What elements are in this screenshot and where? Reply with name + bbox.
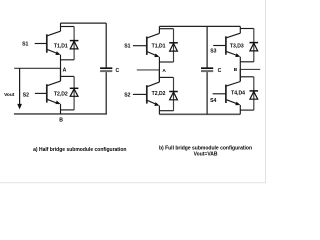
transistor T1 (full bridge) gate bar (146, 37, 148, 55)
wire node B to T4 collector (full bridge) (239, 69, 241, 81)
wire node A to T2 collector (half bridge) (60, 68, 62, 81)
wire top rail (full bridge) (159, 25, 240, 27)
wire from node down to collector of transistor T2 (half bridge) (60, 68, 62, 81)
svg-text:S2: S2 (124, 92, 130, 98)
wire diode D1 (full bridge) lead (173, 29, 175, 62)
svg-text:S3: S3 (210, 49, 216, 55)
diode D2 (half bridge) (70, 87, 79, 89)
wire from node down to collector of transistor T2 (full bridge) (158, 70, 160, 82)
emitter arrow of transistor T4 (full bridge) (235, 102, 240, 106)
wire cathode branch of transistor T2 (half bridge) (61, 75, 75, 77)
collector lead of transistor T1 (full bridge) (147, 33, 160, 38)
svg-text:B: B (59, 117, 63, 123)
svg-text:T4,D4: T4,D4 (231, 90, 245, 96)
emitter arrow of transistor T2 (full bridge) (154, 102, 159, 106)
emitter lead of transistor T2 (full bridge) (147, 100, 158, 105)
wire node A tap (half bridge) (14, 67, 60, 69)
svg-text:S2: S2 (23, 92, 29, 98)
wire diode D1 (half bridge) lead (73, 27, 75, 60)
emitter lead of transistor T2 (half bridge) (47, 99, 59, 104)
collector lead of transistor T1 (half bridge) (47, 31, 61, 36)
svg-text:C: C (218, 68, 222, 74)
wire gate S2 (half bridge) (35, 92, 47, 94)
svg-text:a) Half bridge submodule confi: a) Half bridge submodule configuration (33, 147, 126, 153)
svg-text:T1,D1: T1,D1 (54, 44, 68, 50)
diode D1 (half bridge) (70, 40, 79, 42)
wire gate S1 (half bridge) (35, 43, 47, 45)
wire anode branch of transistor T1 (full bridge) (159, 61, 173, 63)
emitter lead of transistor T4 (full bridge) (226, 100, 239, 105)
wire cathode branch of transistor T1 (half bridge) (61, 26, 75, 28)
capacitor C (full bridge): bottom lead (206, 72, 208, 114)
svg-text:Vout: Vout (4, 92, 15, 98)
svg-text:T3,D3: T3,D3 (230, 43, 244, 49)
wire gate S1 (full bridge) (133, 45, 147, 47)
wire emitter of transistor T2 (half bridge) to bottom rail (60, 104, 62, 114)
wire collector stub of transistor T3 (full bridge) to top rail (239, 26, 241, 33)
collector lead of transistor T2 (full bridge) (147, 82, 160, 87)
capacitor C (full bridge): top lead (206, 26, 208, 67)
svg-text:S1: S1 (124, 43, 130, 49)
wire anode branch of transistor T3 (full bridge) (240, 61, 254, 63)
transistor T3 (full bridge) gate bar (225, 36, 227, 54)
collector lead of transistor T4 (full bridge) (226, 82, 240, 87)
svg-text:S4: S4 (210, 98, 216, 104)
wire diode D4 (full bridge) lead (253, 77, 255, 110)
svg-text:Vout=VAB: Vout=VAB (194, 151, 218, 157)
wire collector stub of transistor T1 (half bridge) to top rail (60, 23, 62, 31)
svg-text:A: A (63, 67, 67, 73)
wire diode D2 (half bridge) lead (73, 76, 75, 110)
wire gate S2 (full bridge) (133, 93, 147, 95)
collector lead of transistor T2 (half bridge) (47, 81, 61, 86)
wire anode branch of transistor T2 (half bridge) (61, 109, 75, 111)
capacitor C (half bridge): plates (100, 67, 112, 69)
emitter arrow of transistor T1 (half bridge) (55, 51, 60, 55)
svg-text:C: C (116, 68, 120, 74)
wire node B tap (full bridge) (240, 68, 260, 70)
wire bottom rail (full bridge) (159, 113, 240, 115)
svg-text:T2,D2: T2,D2 (54, 92, 68, 98)
svg-text:B: B (234, 67, 238, 73)
transistor T2 (full bridge) gate bar (146, 85, 148, 103)
diode D2 (full bridge) (169, 91, 178, 93)
wire diode D2 (full bridge) lead (173, 77, 175, 110)
wire bottom rail (half bridge) (14, 113, 107, 115)
emitter arrow of transistor T3 (full bridge) (235, 53, 240, 57)
wire anode branch of transistor T1 (half bridge) (61, 59, 75, 61)
emitter arrow of transistor T2 (half bridge) (55, 100, 60, 104)
wire diode D3 (full bridge) lead (253, 29, 255, 62)
wire cathode branch of transistor T1 (full bridge) (159, 28, 173, 30)
diode D4 (full bridge) (250, 90, 259, 92)
wire gate S3 (full bridge) (213, 45, 226, 47)
emitter lead of transistor T1 (full bridge) (147, 52, 158, 57)
wire anode branch of transistor T2 (full bridge) (159, 110, 173, 112)
svg-text:A: A (162, 68, 166, 74)
wire from node down to collector of transistor T4 (full bridge) (239, 69, 241, 81)
wire emitter of transistor T1 (full bridge) to node (158, 57, 160, 71)
svg-text:T1,D1: T1,D1 (152, 43, 166, 49)
svg-text:T2,D2: T2,D2 (152, 91, 166, 97)
emitter lead of transistor T1 (half bridge) (47, 49, 59, 54)
capacitor C (half bridge): bottom lead (105, 72, 107, 114)
wire cathode branch of transistor T4 (full bridge) (240, 76, 254, 78)
wire cathode branch of transistor T2 (full bridge) (159, 76, 173, 78)
capacitor C (full bridge): plates (201, 67, 213, 69)
wire node A to T2 collector (full bridge) (158, 70, 160, 82)
svg-text:S1: S1 (22, 41, 28, 47)
emitter lead of transistor T3 (full bridge) (226, 51, 239, 56)
wire gate S4 (full bridge) (213, 93, 226, 95)
transistor T1 (half bridge) gate bar (46, 34, 48, 52)
wire emitter of transistor T4 (full bridge) to bottom rail (239, 105, 241, 114)
collector lead of transistor T3 (full bridge) (226, 33, 240, 38)
diode D3 (full bridge) (250, 42, 259, 44)
wire top rail (half bridge) (61, 22, 107, 24)
transistor T4 (full bridge) gate bar (225, 85, 227, 103)
emitter arrow of transistor T1 (full bridge) (154, 53, 159, 57)
wire emitter of transistor T3 (full bridge) to node (239, 57, 241, 70)
transistor T2 (half bridge) gate bar (46, 84, 48, 102)
diode D1 (full bridge) (169, 42, 178, 44)
wire emitter of transistor T1 (half bridge) to node (60, 55, 62, 69)
wire anode branch of transistor T4 (full bridge) (240, 109, 254, 111)
Vout arrow (19, 68, 21, 104)
wire node A tap (full bridge) (137, 69, 160, 71)
wire collector stub of transistor T1 (full bridge) to top rail (158, 26, 160, 33)
capacitor C (half bridge): top lead (105, 23, 107, 68)
wire emitter of transistor T2 (full bridge) to bottom rail (158, 106, 160, 115)
wire cathode branch of transistor T3 (full bridge) (240, 28, 254, 30)
